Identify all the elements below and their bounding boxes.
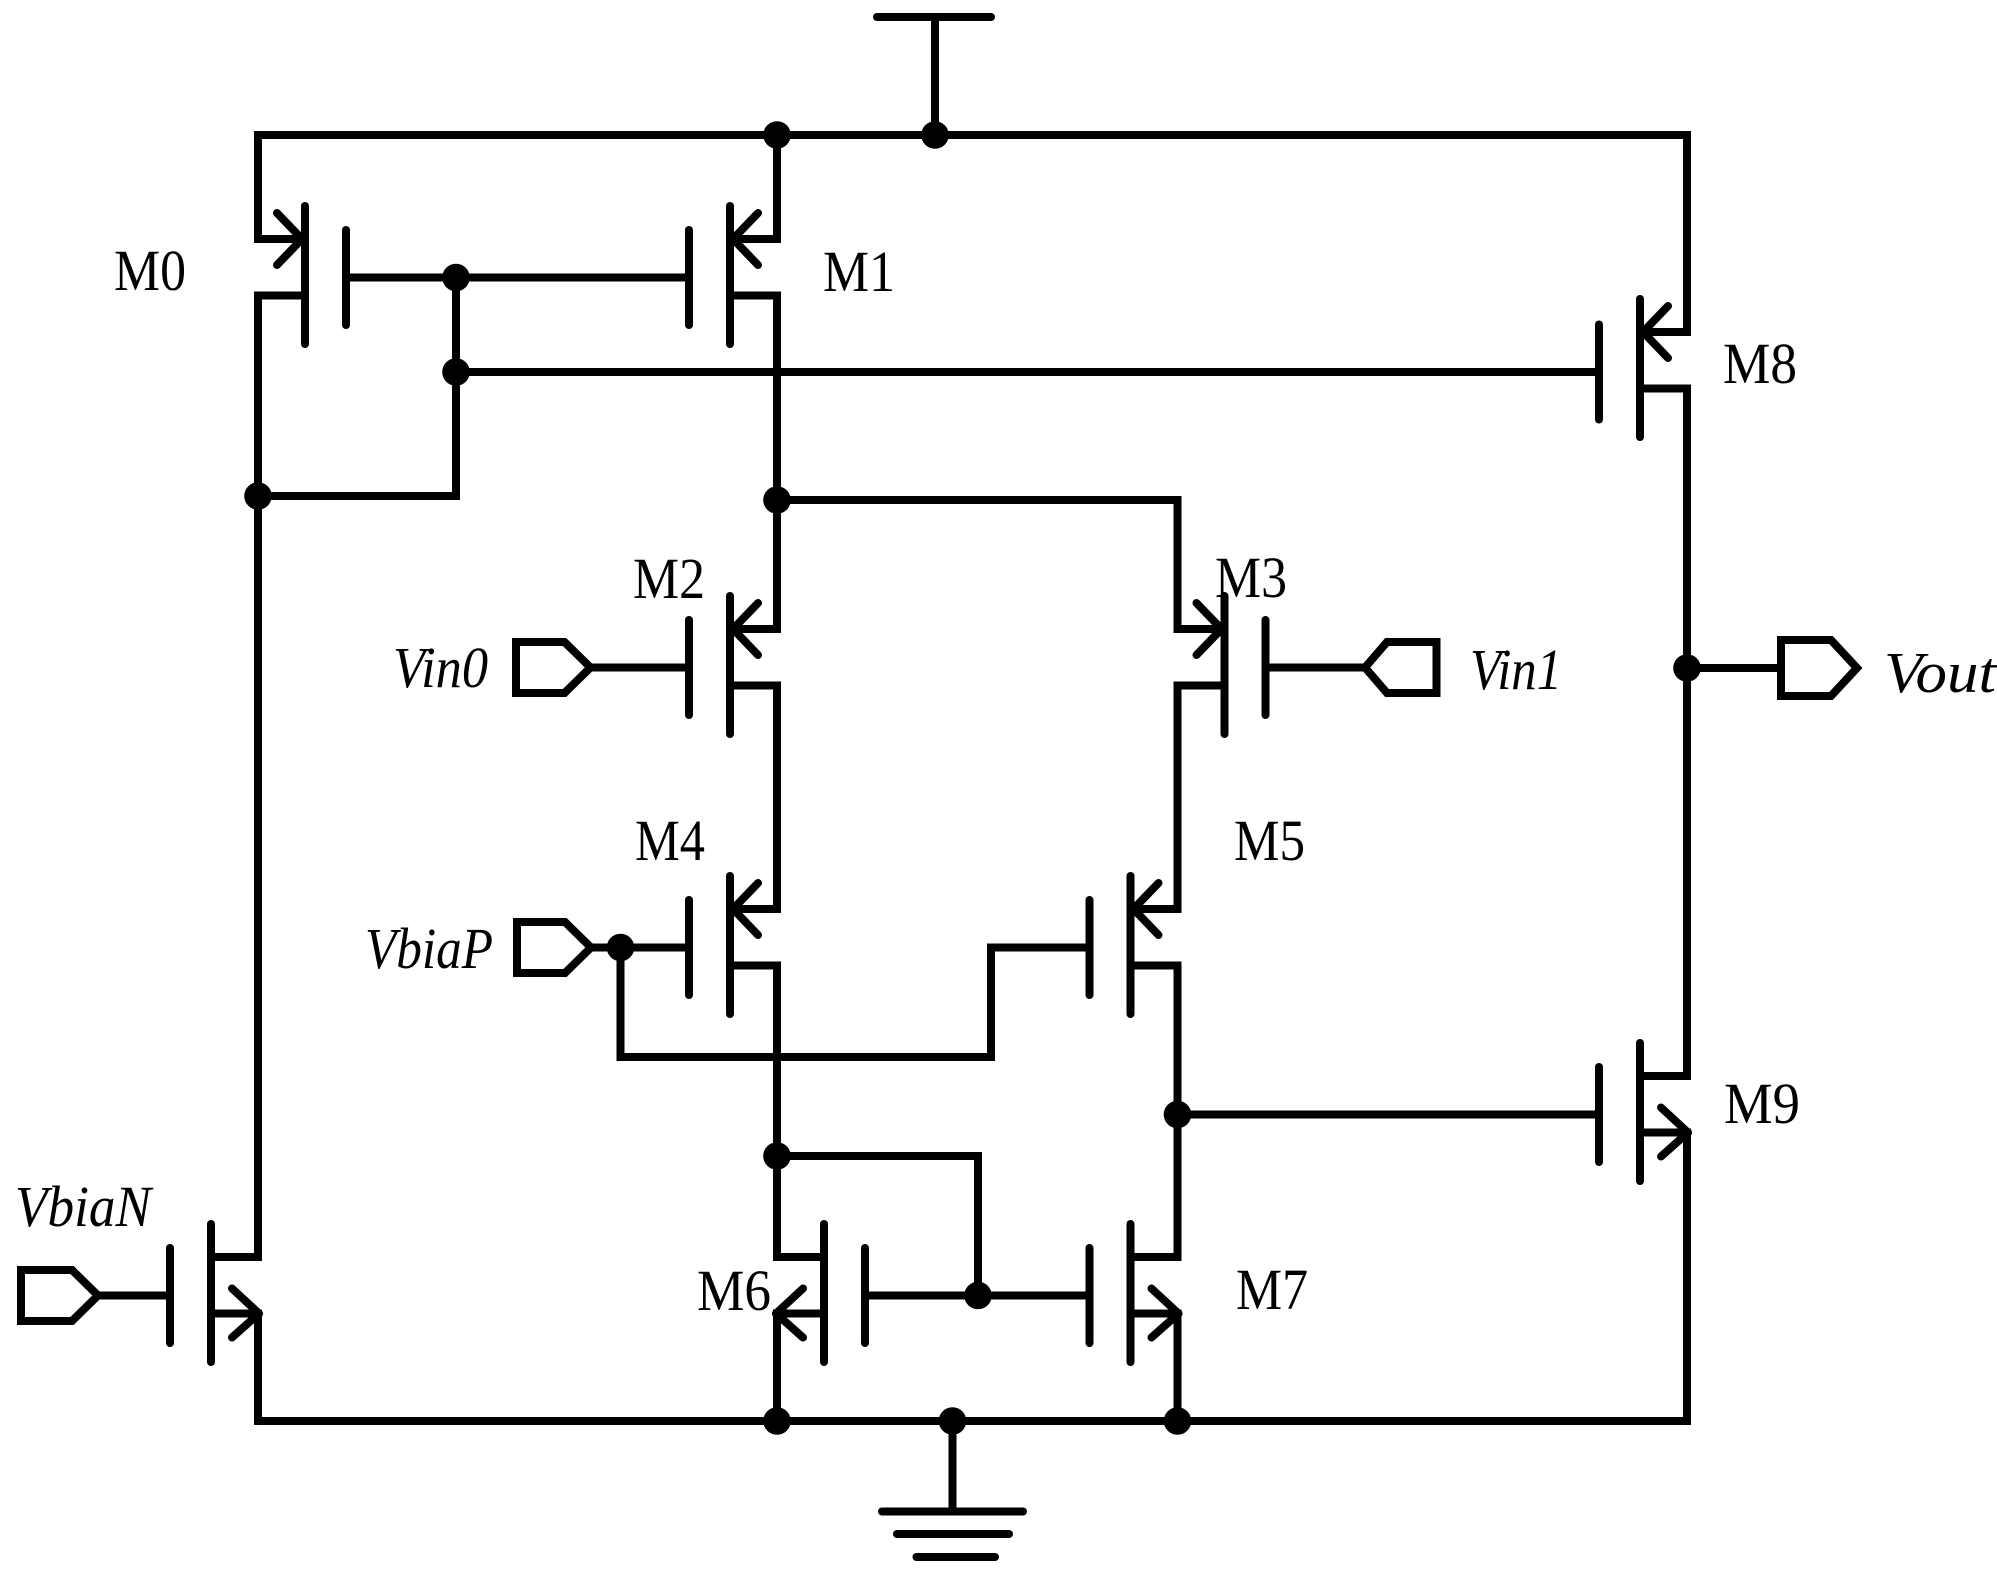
svg-text:M1: M1 bbox=[823, 239, 895, 304]
svg-text:M6: M6 bbox=[697, 1258, 771, 1323]
svg-text:M3: M3 bbox=[1215, 545, 1287, 610]
svg-text:M2: M2 bbox=[633, 546, 705, 611]
svg-text:Vout: Vout bbox=[1884, 640, 1997, 705]
svg-text:M8: M8 bbox=[1723, 331, 1797, 396]
svg-text:M7: M7 bbox=[1236, 1257, 1308, 1322]
svg-text:VbiaN: VbiaN bbox=[15, 1174, 154, 1239]
svg-text:VbiaP: VbiaP bbox=[365, 916, 493, 981]
svg-text:M4: M4 bbox=[635, 808, 705, 873]
svg-text:M9: M9 bbox=[1724, 1071, 1800, 1136]
svg-text:Vin0: Vin0 bbox=[393, 635, 488, 700]
svg-text:Vin1: Vin1 bbox=[1470, 637, 1562, 702]
svg-text:M0: M0 bbox=[114, 238, 186, 303]
svg-text:M5: M5 bbox=[1234, 808, 1305, 873]
